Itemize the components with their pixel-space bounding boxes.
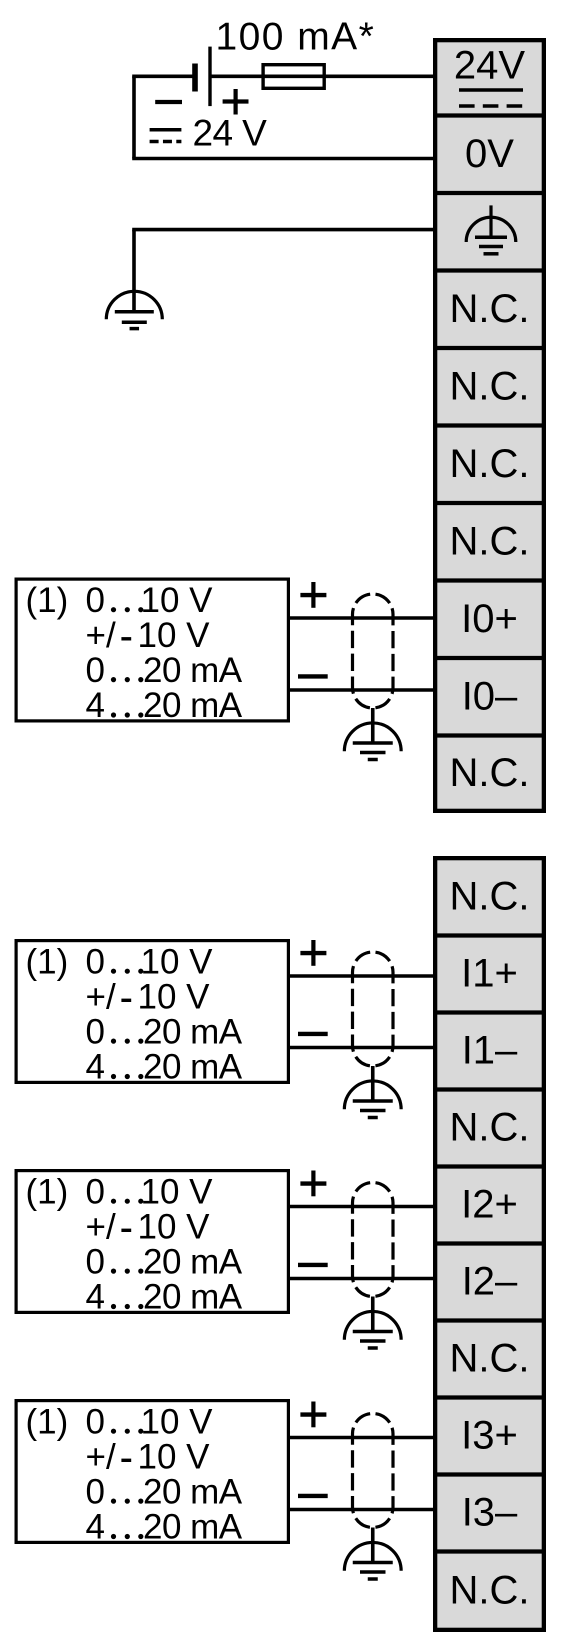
terminal I2- label bbox=[462, 1260, 518, 1304]
shield ground symbol for I1 bbox=[344, 1081, 401, 1118]
terminal N.C. label bbox=[450, 519, 530, 563]
svg-text:20 mA: 20 mA bbox=[143, 651, 243, 690]
svg-text:10 V: 10 V bbox=[141, 942, 214, 981]
svg-text:20 mA: 20 mA bbox=[143, 1242, 243, 1281]
fuse rating label 100 mA* bbox=[216, 16, 376, 59]
polarity - mark for I3 bbox=[298, 1494, 328, 1498]
svg-text:N.C.: N.C. bbox=[450, 1337, 530, 1381]
terminal I1- label bbox=[462, 1029, 518, 1073]
svg-text:0: 0 bbox=[86, 651, 105, 690]
polarity + mark for I0 bbox=[300, 582, 326, 608]
svg-text:10 V: 10 V bbox=[141, 1402, 214, 1441]
svg-text:(1): (1) bbox=[26, 581, 69, 620]
wire 0V return bbox=[132, 76, 435, 158]
svg-text:0: 0 bbox=[86, 1012, 105, 1051]
svg-text:100 mA*: 100 mA* bbox=[216, 16, 376, 59]
svg-text:N.C.: N.C. bbox=[450, 1106, 530, 1150]
svg-text:(1): (1) bbox=[26, 1402, 69, 1441]
terminal 24V label bbox=[454, 44, 525, 88]
svg-text:24 V: 24 V bbox=[193, 113, 268, 154]
terminal block TB2 bbox=[433, 858, 546, 1630]
terminal N.C. label bbox=[450, 287, 530, 331]
svg-text:N.C.: N.C. bbox=[450, 874, 530, 918]
wire I1- bbox=[290, 1046, 435, 1050]
shielded cable symbol for I2 bbox=[353, 1183, 394, 1297]
DC symbol at battery bbox=[150, 130, 182, 142]
svg-text:10 V: 10 V bbox=[138, 1437, 211, 1476]
wire I2- bbox=[290, 1277, 435, 1281]
svg-text:I2+: I2+ bbox=[461, 1183, 518, 1227]
svg-text:I1–: I1– bbox=[462, 1029, 518, 1073]
polarity - mark for I2 bbox=[298, 1263, 328, 1267]
svg-text:20 mA: 20 mA bbox=[143, 1012, 243, 1051]
wire I0+ bbox=[290, 616, 435, 620]
wire I2+ bbox=[290, 1205, 435, 1209]
svg-text:0V: 0V bbox=[465, 132, 514, 176]
svg-text:N.C.: N.C. bbox=[450, 519, 530, 563]
svg-text:10 V: 10 V bbox=[138, 977, 211, 1016]
shield ground symbol for I3 bbox=[344, 1542, 401, 1579]
shielded cable symbol for I3 bbox=[353, 1414, 394, 1528]
battery positive polarity mark bbox=[223, 89, 249, 115]
svg-text:N.C.: N.C. bbox=[450, 751, 530, 795]
svg-text:I3–: I3– bbox=[462, 1491, 518, 1535]
shield ground wire for I1 bbox=[371, 1066, 375, 1101]
svg-text:+/: +/ bbox=[86, 977, 116, 1016]
sensor range box (1) for input I1 bbox=[16, 941, 288, 1087]
svg-text:I3+: I3+ bbox=[461, 1414, 518, 1458]
shield ground wire for I2 bbox=[371, 1297, 375, 1332]
svg-text:I0+: I0+ bbox=[461, 597, 518, 641]
functional earth terminal symbol bbox=[466, 205, 516, 253]
shielded cable symbol for I1 bbox=[353, 952, 394, 1066]
svg-text:10 V: 10 V bbox=[138, 1207, 211, 1246]
polarity - mark for I0 bbox=[298, 674, 328, 678]
terminal N.C. label bbox=[450, 442, 530, 486]
svg-text:+/: +/ bbox=[86, 616, 116, 655]
svg-text:20 mA: 20 mA bbox=[143, 1472, 243, 1511]
polarity - mark for I1 bbox=[298, 1032, 328, 1036]
polarity + mark for I2 bbox=[300, 1171, 326, 1197]
svg-text:0: 0 bbox=[86, 1242, 105, 1281]
svg-text:10 V: 10 V bbox=[141, 1172, 214, 1211]
terminal N.C. label bbox=[450, 751, 530, 795]
svg-text:4: 4 bbox=[86, 1278, 105, 1317]
svg-text:0: 0 bbox=[86, 1172, 105, 1211]
svg-text:(1): (1) bbox=[26, 942, 69, 981]
svg-text:20 mA: 20 mA bbox=[143, 1278, 243, 1317]
svg-text:4: 4 bbox=[86, 686, 105, 725]
svg-text:10 V: 10 V bbox=[138, 616, 211, 655]
wire 24V supply: battery to fuse to 24V terminal bbox=[132, 75, 435, 79]
terminal 0V label bbox=[465, 132, 514, 176]
terminal N.C. label bbox=[450, 1337, 530, 1381]
sensor range box (1) for input I2 bbox=[16, 1171, 288, 1317]
wire I1+ bbox=[290, 974, 435, 978]
terminal N.C. label bbox=[450, 1568, 530, 1612]
svg-text:(1): (1) bbox=[26, 1172, 69, 1211]
battery negative polarity mark bbox=[155, 100, 182, 104]
svg-text:4: 4 bbox=[86, 1508, 105, 1547]
svg-text:I1+: I1+ bbox=[461, 952, 518, 996]
shield ground symbol for I0 bbox=[344, 723, 401, 760]
svg-text:10 V: 10 V bbox=[141, 581, 214, 620]
svg-text:0: 0 bbox=[86, 1402, 105, 1441]
svg-text:24V: 24V bbox=[454, 44, 525, 88]
terminal I0+ label bbox=[461, 597, 518, 641]
svg-text:N.C.: N.C. bbox=[450, 287, 530, 331]
svg-text:N.C.: N.C. bbox=[450, 1568, 530, 1612]
svg-text:0: 0 bbox=[86, 1472, 105, 1511]
svg-text:20 mA: 20 mA bbox=[143, 686, 243, 725]
wire I3+ bbox=[290, 1436, 435, 1440]
wire I3- bbox=[290, 1508, 435, 1512]
battery value label 24 V bbox=[193, 113, 268, 154]
wire protective earth bbox=[132, 230, 435, 312]
terminal block TB1 bbox=[433, 40, 546, 811]
svg-text:20 mA: 20 mA bbox=[143, 1508, 243, 1547]
sensor range box (1) for input I0 bbox=[16, 579, 288, 725]
terminal I1+ label bbox=[461, 952, 518, 996]
terminal N.C. label bbox=[450, 1106, 530, 1150]
sensor range box (1) for input I3 bbox=[16, 1401, 288, 1547]
svg-text:+/: +/ bbox=[86, 1207, 116, 1246]
svg-text:N.C.: N.C. bbox=[450, 442, 530, 486]
svg-text:0: 0 bbox=[86, 942, 105, 981]
polarity + mark for I3 bbox=[300, 1402, 326, 1428]
shield ground wire for I3 bbox=[371, 1528, 375, 1563]
terminal N.C. label bbox=[450, 874, 530, 918]
svg-text:N.C.: N.C. bbox=[450, 364, 530, 408]
shield ground wire for I0 bbox=[371, 708, 375, 743]
terminal I0- label bbox=[462, 674, 518, 718]
wire I0- bbox=[290, 688, 435, 692]
shielded cable symbol for I0 bbox=[353, 594, 394, 708]
svg-text:0: 0 bbox=[86, 581, 105, 620]
shield ground symbol for I2 bbox=[344, 1311, 401, 1348]
polarity + mark for I1 bbox=[300, 940, 326, 966]
terminal N.C. label bbox=[450, 364, 530, 408]
terminal I3- label bbox=[462, 1491, 518, 1535]
terminal I3+ label bbox=[461, 1414, 518, 1458]
svg-text:I0–: I0– bbox=[462, 674, 518, 718]
svg-text:20 mA: 20 mA bbox=[143, 1048, 243, 1087]
battery B1 24 V bbox=[195, 47, 210, 107]
ground symbol (earth) bbox=[106, 291, 162, 328]
DC symbol on 24V terminal bbox=[459, 90, 523, 106]
fuse F1 bbox=[263, 65, 324, 89]
svg-text:I2–: I2– bbox=[462, 1260, 518, 1304]
svg-text:+/: +/ bbox=[86, 1437, 116, 1476]
svg-text:4: 4 bbox=[86, 1048, 105, 1087]
terminal I2+ label bbox=[461, 1183, 518, 1227]
